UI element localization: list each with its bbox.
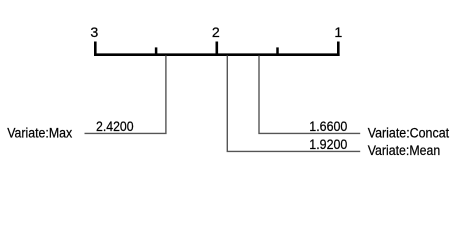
minor tick rank 1.5 [276,47,279,56]
svg-text:1.9200: 1.9200 [309,137,347,152]
major tick rank 3 [94,42,97,57]
connector Variate:Max [85,56,166,134]
axis main line [94,53,340,56]
svg-text:2: 2 [212,24,220,40]
svg-text:1.6600: 1.6600 [309,119,347,134]
connector Variate:Concat [259,56,360,134]
major tick rank 2 [216,42,219,57]
major tick rank 1 [337,42,340,57]
svg-text:Variate:Concat: Variate:Concat [368,124,449,140]
svg-text:Variate:Max: Variate:Max [7,124,72,140]
minor tick rank 2.5 [155,47,158,56]
svg-text:3: 3 [90,24,98,40]
svg-text:2.4200: 2.4200 [96,119,134,134]
svg-text:Variate:Mean: Variate:Mean [368,142,441,158]
connector Variate:Mean [227,56,360,152]
svg-text:1: 1 [334,24,342,40]
